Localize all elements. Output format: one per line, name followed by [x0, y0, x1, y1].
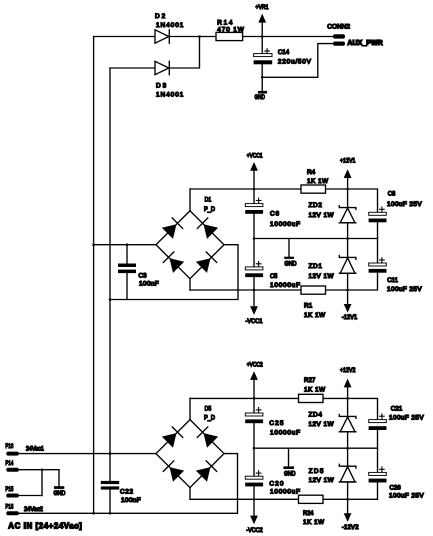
wire bridge D1 top vertex to +rail [189, 189, 191, 211]
wire D2 anode from bus A [94, 36, 155, 38]
connector pin P16 [6, 452, 18, 456]
svg-text:C14: C14 [278, 49, 290, 56]
capacitor C8 [369, 207, 387, 239]
svg-text:ZD2: ZD2 [309, 202, 323, 209]
capacitor C26 [369, 448, 387, 482]
svg-text:10000uF: 10000uF [270, 221, 300, 228]
node junction -12V2 [346, 498, 349, 501]
svg-text:AC IN [24+24Vac]: AC IN [24+24Vac] [8, 522, 82, 531]
node junction mid rail caps [253, 237, 256, 240]
node junction bus B at 24Vac2 [109, 512, 112, 515]
node junction mid rail caps2 [253, 447, 256, 450]
capacitor C5 [245, 239, 263, 291]
ground GND input [54, 486, 64, 489]
resistor R4 [301, 185, 326, 193]
svg-text:ZD4: ZD4 [309, 411, 323, 418]
ground GND top [258, 91, 267, 94]
svg-text:D3: D3 [156, 83, 167, 90]
node junction -12V1 [346, 289, 349, 292]
wire -VCC1 rail left [190, 289, 301, 291]
svg-text:+VCC2: +VCC2 [247, 362, 263, 369]
svg-text:D5: D5 [205, 405, 212, 412]
svg-text:GND: GND [54, 490, 66, 497]
wire AC2 to bridge D1 right vertex [110, 245, 238, 300]
vertical bus wire A (24Vac1) [93, 37, 95, 514]
wire +VCC2 rail right [323, 398, 378, 419]
svg-text:GND: GND [285, 260, 297, 267]
wire 24Vac1 from P16 to bridge D5 left vertex [19, 453, 156, 455]
svg-text:ZD1: ZD1 [309, 263, 323, 270]
svg-text:12V 1W: 12V 1W [309, 477, 335, 484]
node junction bus A at 24Vac2 [92, 512, 95, 515]
svg-text:GND: GND [284, 470, 296, 477]
node junction bus A AC1 [92, 243, 95, 246]
svg-text:R24: R24 [303, 510, 314, 517]
svg-text:C8: C8 [388, 191, 396, 198]
node junction zener mid2 [346, 447, 349, 450]
wire P14 to GND and P15 [19, 470, 59, 496]
svg-text:100uF 25V: 100uF 25V [389, 493, 424, 500]
wire mid rail GND1 [254, 238, 378, 240]
svg-text:R14: R14 [217, 19, 233, 26]
svg-text:100uF 25V: 100uF 25V [387, 286, 422, 293]
svg-text:12V 1W: 12V 1W [309, 421, 335, 428]
svg-text:100nF: 100nF [139, 280, 159, 287]
wire 24Vac2 from P13 to bridge D5 right vertex [19, 454, 238, 514]
diode D3 [155, 61, 169, 74]
vertical bus wire B lower below C22 [109, 490, 111, 514]
wire AC1 to bridge D1 left vertex [94, 244, 156, 246]
node junction -VCC1/C5 [253, 289, 256, 292]
power rail +VCC2 [250, 371, 258, 398]
svg-text:1K 1W: 1K 1W [304, 312, 326, 319]
wire CONN2 pin2 to C14 bottom [262, 44, 333, 78]
power rail -12V2 [344, 499, 352, 522]
svg-text:C6: C6 [270, 210, 279, 217]
node junction rail/C6 [253, 188, 256, 191]
wire +VCC1 rail right [326, 189, 378, 212]
svg-text:C3: C3 [139, 272, 147, 279]
connector pin P15 [6, 494, 18, 498]
svg-text:24Vac1: 24Vac1 [26, 446, 44, 453]
resistor R1 [301, 286, 326, 294]
svg-text:CONN2: CONN2 [327, 23, 350, 30]
wire -VCC1 rail right [326, 273, 378, 290]
svg-text:1K 1W: 1K 1W [303, 519, 325, 526]
svg-text:C26: C26 [390, 485, 402, 492]
resistor R14 [216, 32, 243, 40]
wire +VCC2 rail left [190, 397, 299, 399]
node junction VR1/C14 [261, 35, 264, 38]
ground GND mid1 [284, 239, 294, 259]
node junction zener mid [346, 237, 349, 240]
svg-text:+12V1: +12V1 [340, 158, 356, 165]
connector CONN2 pin 2 [333, 42, 345, 46]
svg-text:100uF 25V: 100uF 25V [387, 201, 422, 208]
svg-text:R4: R4 [307, 169, 316, 176]
svg-text:D2: D2 [155, 13, 166, 20]
svg-text:R1: R1 [304, 303, 313, 310]
svg-text:+VCC1: +VCC1 [247, 152, 263, 159]
node junction bus B AC2 [109, 298, 112, 301]
power rail +VCC1 [250, 162, 258, 189]
capacitor C25 [245, 398, 263, 448]
svg-text:-12V1: -12V1 [342, 314, 358, 321]
zener diode ZD1 [339, 239, 356, 291]
svg-text:1N4001: 1N4001 [156, 92, 184, 99]
capacitor C21 [369, 414, 387, 448]
svg-text:24Vac2: 24Vac2 [24, 506, 43, 513]
connector pin P14 [6, 468, 18, 472]
svg-text:ZD5: ZD5 [309, 468, 324, 475]
svg-text:1K 1W: 1K 1W [304, 387, 326, 394]
svg-text:P_D: P_D [204, 206, 215, 213]
svg-text:-12V2: -12V2 [342, 524, 359, 531]
zener diode ZD4 [339, 398, 356, 448]
bridge rectifier D1 [156, 211, 224, 279]
svg-text:P15: P15 [5, 486, 13, 493]
svg-text:100nF: 100nF [121, 497, 141, 504]
wire mid rail GND2 [254, 447, 378, 449]
node junction P14/P15 [41, 468, 44, 471]
wire -VCC2 rail left [190, 498, 299, 500]
wire -VCC2 rail right [323, 482, 378, 499]
svg-text:-VCC1: -VCC1 [246, 318, 263, 325]
node junction -VCC2/C20 [253, 498, 256, 501]
wire D3 cathode up to node [169, 37, 199, 69]
capacitor C11 [369, 239, 387, 273]
node junction C3 top [126, 243, 129, 246]
wire D3 anode from bus B [110, 67, 155, 69]
svg-text:1K 1W: 1K 1W [307, 178, 329, 185]
svg-text:470 1W: 470 1W [217, 26, 244, 33]
capacitor C14 [254, 37, 273, 92]
power rail +12V2 [344, 379, 352, 399]
wire bridge D5 top vertex to +rail [189, 398, 191, 419]
svg-text:D1: D1 [205, 196, 212, 203]
node junction bus B 24Vac1 [109, 452, 112, 455]
svg-text:10000uF: 10000uF [270, 488, 300, 495]
node junction rail/C25 [253, 397, 256, 400]
svg-text:100uF 25V: 100uF 25V [389, 415, 424, 422]
ground GND mid2 [283, 448, 294, 469]
node junction C14 bottom [261, 76, 264, 79]
capacitor C20 [245, 448, 263, 499]
svg-text:1N4001: 1N4001 [156, 22, 184, 29]
power rail +VR1 [258, 14, 266, 37]
svg-text:220u/50V: 220u/50V [278, 58, 312, 65]
zener diode ZD5 [339, 448, 356, 499]
zener diode ZD2 [339, 189, 356, 239]
svg-text:C11: C11 [387, 277, 398, 284]
svg-text:-VCC2: -VCC2 [246, 527, 263, 534]
svg-text:P13: P13 [5, 504, 13, 511]
svg-text:P16: P16 [5, 443, 13, 450]
bridge rectifier D5 [156, 420, 224, 488]
node junction +12V2 [346, 397, 349, 400]
vertical bus wire B upper (24Vac2) [109, 68, 111, 481]
capacitor C22 [101, 481, 119, 490]
wire D2 cathode to R14 [169, 36, 216, 38]
svg-text:10000uF: 10000uF [270, 429, 300, 436]
svg-text:R27: R27 [304, 377, 316, 384]
svg-text:12V 1W: 12V 1W [309, 273, 335, 280]
power rail -VCC1 [250, 290, 258, 315]
svg-text:+12V2: +12V2 [340, 367, 356, 374]
resistor R24 [299, 495, 324, 503]
connector CONN2 pin 1 [333, 34, 345, 38]
svg-text:P_D: P_D [204, 414, 215, 421]
svg-text:C21: C21 [391, 406, 403, 413]
resistor R27 [299, 394, 324, 402]
wire +VCC1 rail left [190, 188, 301, 190]
svg-text:C5: C5 [270, 273, 278, 280]
svg-text:C22: C22 [120, 489, 133, 496]
connector pin P13 [6, 511, 18, 515]
capacitor C3 [118, 245, 136, 300]
node junction D2/D3 outputs [198, 35, 201, 38]
svg-text:C20: C20 [269, 480, 283, 487]
power rail -VCC2 [250, 499, 258, 524]
svg-text:12V 1W: 12V 1W [309, 212, 335, 219]
svg-text:+VR1: +VR1 [255, 4, 269, 11]
diode D2 [155, 30, 169, 43]
power rail -12V1 [344, 290, 352, 313]
node junction +12V1 [346, 188, 349, 191]
power rail +12V1 [344, 169, 352, 189]
svg-text:GND: GND [255, 94, 266, 101]
svg-text:C25: C25 [269, 420, 283, 427]
wire R14 to CONN2 pin1 [243, 36, 333, 38]
capacitor C6 [245, 189, 263, 239]
wire bridge D1 bottom vertex to -rail [189, 279, 191, 290]
wire bridge D5 bottom vertex to -rail [189, 488, 191, 500]
svg-text:AUX_PWR: AUX_PWR [347, 40, 382, 47]
svg-text:10000uF: 10000uF [270, 282, 300, 289]
svg-text:P14: P14 [5, 460, 13, 467]
